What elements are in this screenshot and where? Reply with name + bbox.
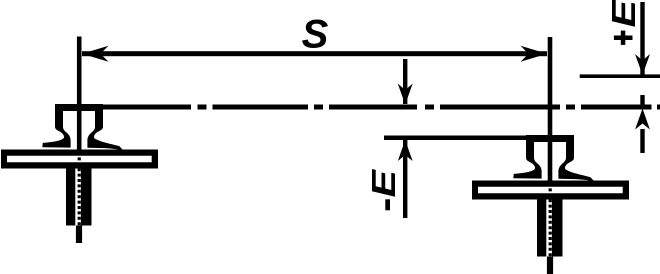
- right centerline dotted through plate and stem: [549, 183, 552, 257]
- +E dimension down arrowhead: [635, 54, 650, 75]
- +E dimension middle stub: [640, 95, 644, 109]
- reference line for -E: [384, 136, 530, 141]
- -E dimension lower line: [403, 140, 407, 218]
- dimension S line: [82, 51, 547, 56]
- +E reference short line: [580, 74, 660, 78]
- horizontal dash-dot axis line: [55, 105, 660, 110]
- -E dimension upper line: [403, 59, 407, 104]
- left centerline dotted through plate and stem: [78, 152, 81, 226]
- right centerline / extension line: [548, 37, 553, 182]
- -E dimension up arrowhead: [398, 140, 413, 161]
- label -E: minus bar: [385, 199, 390, 210]
- svg-text:E: E: [605, 0, 642, 28]
- +E dimension lower line: [640, 129, 644, 153]
- dimension S left arrowhead: [82, 46, 109, 62]
- label +E: plus sign: [621, 31, 626, 45]
- left rail and girder assembly: [1, 104, 158, 243]
- svg-text:S: S: [302, 13, 329, 57]
- +E dimension upper line: [640, 2, 644, 75]
- -E dimension down arrowhead: [398, 84, 413, 105]
- svg-text:E: E: [365, 169, 402, 198]
- +E dimension up arrowhead: [635, 109, 650, 130]
- right rail and girder assembly: [472, 135, 629, 274]
- left centerline / extension line: [77, 37, 82, 152]
- dimension S right arrowhead: [521, 46, 548, 62]
